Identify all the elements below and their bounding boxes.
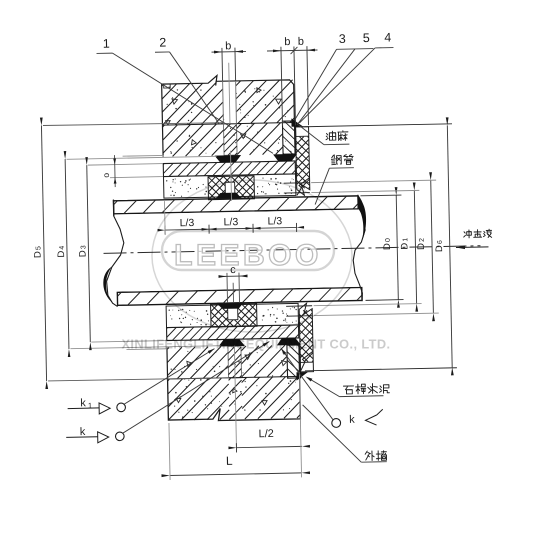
oakum crosshatch block upper (208, 176, 254, 200)
svg-text:1: 1 (88, 401, 92, 410)
dimension D0 (pipe OD) (396, 195, 398, 300)
sleeve stub edge lines at right face (284, 182, 310, 185)
c-slot extension lines through lower pipe wall (226, 273, 229, 303)
pipe left break line with black crescent (105, 199, 125, 306)
svg-text:5: 5 (35, 246, 42, 250)
concrete speckles and aggregate marks (166, 84, 291, 155)
svg-text:b: b (298, 36, 304, 48)
L/2 dimension (236, 446, 301, 447)
svg-text:k: k (349, 414, 355, 426)
watermark ellipse (152, 180, 352, 332)
svg-text:D: D (399, 243, 410, 250)
svg-text:L/3: L/3 (268, 215, 283, 227)
dimension D5 (left) (41, 126, 46, 381)
svg-text:k: k (80, 426, 86, 438)
seal trapezoid lower-left (black) (218, 339, 245, 347)
svg-text:D: D (56, 250, 67, 257)
svg-text:D: D (32, 251, 43, 258)
dimension D6 (wing ring OD) (447, 125, 452, 367)
svg-text:L/3: L/3 (224, 216, 239, 228)
dimension D1 (sleeve ID) (414, 190, 416, 303)
corner notch at wall top-left (164, 84, 171, 88)
break line across upper plates (297, 178, 310, 196)
svg-text:1: 1 (402, 238, 409, 242)
wall block upper (concrete), hatched (161, 74, 294, 125)
svg-text:D: D (416, 243, 427, 250)
svg-text:b: b (284, 36, 290, 48)
notch in upper crosshatch (225, 182, 235, 195)
steel pipe lower wall, hatched (117, 287, 362, 305)
watermark stadium box (162, 231, 334, 270)
svg-text:k: k (80, 397, 86, 409)
extension lines to L dims (169, 423, 170, 480)
small thickness dimension at left sleeve (110, 177, 163, 178)
dimension D2 (sleeve OD) (431, 180, 434, 313)
gland flange plates upper (outside wall face) (296, 127, 310, 196)
svg-text:D: D (434, 245, 445, 252)
seal trapezoid upper-left (black) (215, 155, 242, 163)
svg-text:1: 1 (103, 37, 110, 51)
label waiqiang (outer wall) with leader (365, 451, 374, 461)
svg-text:o: o (101, 173, 111, 178)
slot through upper wall (222, 81, 225, 124)
wall block lower (concrete), hatched (168, 376, 301, 421)
vertical axis line segments (229, 63, 230, 124)
oakum crosshatch block lower (211, 303, 257, 327)
label shimianshuini (asbestos cement) with leader (343, 386, 353, 394)
wing ring upper segment (282, 121, 296, 154)
L/3 dimension row (165, 227, 296, 230)
break line across lower plates (300, 351, 313, 371)
svg-text:D: D (77, 250, 88, 257)
gland column upper, hatched (223, 124, 237, 156)
wall infill below D5 line, upper (162, 124, 224, 157)
svg-text:4: 4 (384, 30, 391, 44)
gland flange plates lower (299, 303, 313, 372)
label youma (oakum) with leader (326, 131, 336, 140)
svg-text:D: D (382, 243, 393, 250)
svg-text:2: 2 (419, 238, 426, 242)
svg-text:5: 5 (363, 31, 370, 45)
pipe bore (white) (106, 209, 368, 291)
svg-text:L: L (226, 454, 233, 468)
label chongjibo (shock wave) with arrow (464, 230, 472, 238)
label gangguan (steel pipe) with leader (331, 155, 341, 165)
packing speckle band upper (asbestos cement) (164, 174, 296, 198)
seal wedge on pipe lower (217, 302, 244, 309)
L dimension (170, 473, 301, 476)
steel pipe upper wall, hatched (113, 196, 358, 214)
svg-text:L/2: L/2 (258, 428, 274, 440)
dimension D4 (65, 159, 69, 349)
svg-text:b: b (225, 40, 231, 52)
pipe centerline (104, 246, 481, 254)
packing speckle band lower (166, 303, 298, 327)
pipe right break line with black crescent (352, 195, 367, 302)
svg-text:2: 2 (159, 36, 166, 50)
weld seam lower (black triangle) (296, 372, 308, 381)
svg-text:3: 3 (339, 32, 346, 46)
svg-text:3: 3 (80, 245, 87, 249)
dimension b b (flange plates) (267, 50, 317, 51)
svg-text:4: 4 (59, 246, 66, 250)
seal trapezoid lower-right (black) (277, 338, 301, 345)
dimension D3 (87, 165, 91, 342)
sleeve hatched band lower (167, 325, 299, 341)
seal trapezoid upper-right (black) (273, 154, 297, 161)
dimension b (top of slot) (212, 50, 246, 53)
svg-text:L/3: L/3 (180, 217, 195, 229)
gland column lower, hatched (228, 346, 242, 378)
svg-text:LEEBOO: LEEBOO (174, 239, 322, 272)
svg-text:XINLIFENGLIFTINGEQUIPMENT CO.,: XINLIFENGLIFTINGEQUIPMENT CO., LTD. (122, 337, 391, 352)
svg-text:6: 6 (437, 240, 444, 244)
seal wedge on pipe upper (215, 193, 242, 200)
sleeve hatched band upper (163, 161, 295, 177)
weld seam upper (black triangle) (291, 118, 303, 127)
wing ring lower segment (287, 345, 301, 378)
svg-text:0: 0 (385, 238, 392, 242)
notch in lower crosshatch (228, 306, 238, 319)
